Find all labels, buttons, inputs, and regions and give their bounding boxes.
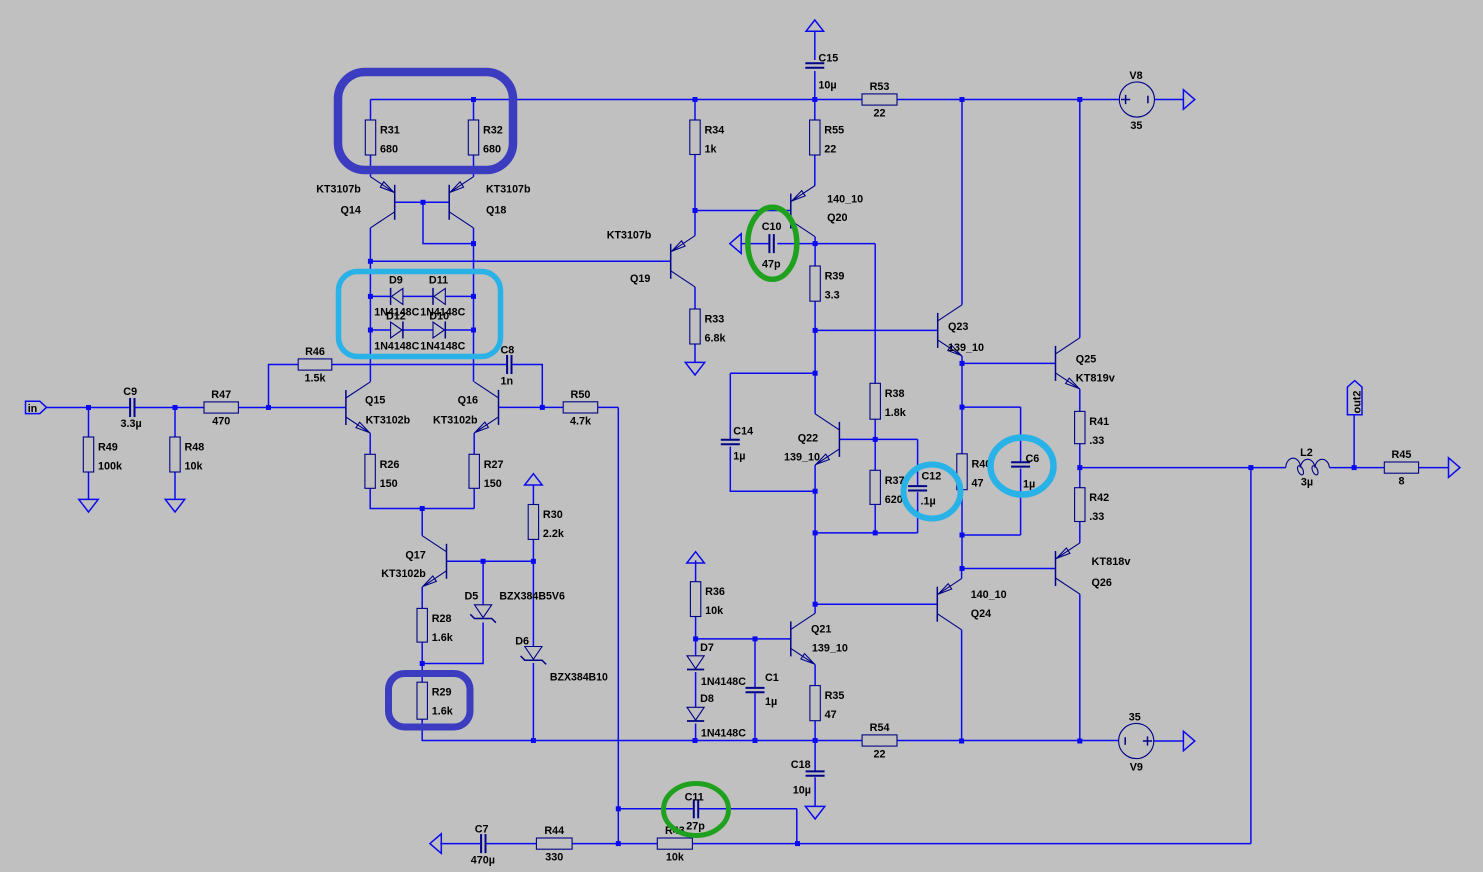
port out2: [1347, 381, 1362, 415]
wire Q18 collector down: [473, 228, 475, 382]
wire Q19 emitter: [694, 211, 696, 236]
resistor R46: [298, 359, 332, 370]
wire C9 to R47: [135, 407, 204, 409]
svg-text:22: 22: [873, 108, 885, 120]
wire R36 arrow: [695, 560, 697, 581]
junction in-R49: [86, 405, 91, 410]
svg-text:140_10: 140_10: [971, 589, 1007, 601]
capacitor C15: [805, 62, 824, 64]
junction diode row2 right: [471, 328, 476, 333]
svg-text:D9: D9: [389, 275, 403, 287]
wire top rail right: [897, 99, 1119, 101]
power flag C10: [730, 234, 741, 254]
resistor R37: [870, 470, 880, 504]
wire C12 bottom: [917, 492, 919, 533]
resistor R55: [810, 120, 820, 155]
svg-text:C12: C12: [922, 471, 942, 483]
svg-text:47: 47: [825, 709, 837, 721]
wire Q21 collector: [814, 604, 816, 613]
wire Q24 emitter up: [961, 569, 963, 579]
transistor Q26: [1055, 551, 1057, 586]
wire R30 bottom: [532, 539, 534, 561]
wire Q25 emitter to R41: [1079, 389, 1081, 411]
wire L2 to R45: [1329, 467, 1384, 469]
svg-text:R54: R54: [870, 722, 890, 734]
svg-text:D6: D6: [515, 636, 529, 648]
junction Q17 base-D5: [481, 559, 486, 564]
highlight box R29: [389, 674, 471, 728]
resistor R34: [690, 120, 700, 155]
diode D10: [433, 322, 444, 338]
wire Q19 base: [370, 260, 670, 262]
svg-text:139_10: 139_10: [948, 342, 984, 354]
power flag R45: [1449, 458, 1460, 478]
svg-text:Q25: Q25: [1076, 354, 1096, 366]
wire R42 top: [1079, 468, 1081, 488]
svg-text:470: 470: [212, 416, 230, 428]
svg-text:D5: D5: [465, 591, 479, 603]
wire R39 bottom: [814, 301, 816, 330]
svg-text:Q24: Q24: [971, 608, 991, 620]
wire Q19 collector to R33: [694, 287, 696, 309]
svg-text:330: 330: [545, 852, 563, 864]
svg-text:1N4148C: 1N4148C: [420, 341, 465, 353]
ground C18: [805, 806, 824, 819]
svg-text:35: 35: [1130, 120, 1142, 132]
resistor R48: [170, 437, 180, 472]
junction rail-D8: [693, 738, 698, 743]
highlight circle C6: [991, 438, 1054, 495]
svg-text:22: 22: [874, 749, 886, 761]
junction C14 top: [813, 371, 818, 376]
svg-text:D11: D11: [429, 275, 448, 287]
diode D7: [687, 656, 704, 669]
wire R27 bottom: [473, 488, 475, 508]
wire R40 bottom: [961, 490, 963, 535]
svg-text:Q19: Q19: [630, 273, 650, 285]
wire R30 top arrow: [532, 485, 534, 505]
svg-text:1.6k: 1.6k: [432, 706, 454, 718]
wire junction up to R46: [269, 365, 299, 408]
svg-text:R28: R28: [432, 613, 452, 625]
svg-text:4.7k: 4.7k: [570, 415, 592, 427]
junction R26-R27 tail: [420, 506, 425, 511]
junction R39-vas: [813, 328, 818, 333]
svg-text:2.2k: 2.2k: [543, 528, 565, 540]
svg-text:R42: R42: [1089, 492, 1109, 504]
svg-text:R26: R26: [380, 459, 400, 471]
svg-text:Q18: Q18: [486, 205, 506, 217]
transistor Q16: [498, 390, 500, 425]
svg-text:KT3102b: KT3102b: [433, 415, 478, 427]
power flag R30: [525, 474, 543, 485]
svg-text:Q20: Q20: [827, 212, 847, 224]
svg-text:1n: 1n: [501, 376, 514, 388]
diode D6: [525, 647, 542, 660]
svg-text:R27: R27: [484, 459, 504, 471]
junction R37 bottom: [873, 530, 878, 535]
wire R40-Q24 node: [961, 535, 963, 569]
wire diode row1: [370, 295, 473, 297]
resistor R44: [536, 838, 572, 849]
resistor R47: [204, 402, 238, 413]
svg-text:.1µ: .1µ: [921, 496, 936, 508]
wire Q23 collector up: [961, 100, 963, 305]
junction Q21-Q24 base: [813, 602, 818, 607]
svg-text:V9: V9: [1130, 762, 1143, 774]
diode D5: [475, 605, 492, 618]
power flag R36: [687, 552, 705, 563]
svg-text:150: 150: [484, 478, 502, 490]
transistor Q18: [448, 185, 450, 220]
resistor R53: [862, 94, 897, 105]
svg-text:Q26: Q26: [1092, 577, 1112, 589]
wire R32 bottom: [473, 155, 475, 177]
svg-text:C7: C7: [475, 824, 489, 836]
junction R43-C11: [795, 841, 800, 846]
svg-text:R30: R30: [543, 509, 563, 521]
svg-text:C9: C9: [123, 386, 137, 398]
svg-text:1N4148C: 1N4148C: [374, 341, 419, 353]
diode D12: [391, 322, 402, 338]
capacitor C14: [721, 439, 740, 441]
wire R43 to corner: [692, 843, 1251, 845]
svg-text:D8: D8: [700, 693, 714, 705]
wire R34 to junction: [694, 155, 696, 211]
transistor Q15: [345, 390, 347, 425]
junction output-R41-R42: [1077, 465, 1082, 470]
svg-text:680: 680: [483, 144, 501, 156]
diode D9: [392, 288, 403, 304]
svg-text:R33: R33: [705, 314, 725, 326]
svg-text:R49: R49: [98, 442, 118, 454]
highlight box diodes: [339, 272, 501, 357]
power flag V9: [1183, 731, 1194, 751]
wire R38-C12 link: [875, 439, 917, 485]
junction R34-Q19-Q20: [693, 208, 698, 213]
svg-text:V8: V8: [1129, 70, 1142, 82]
wire Q14 collector down: [369, 228, 371, 382]
svg-text:1.8k: 1.8k: [885, 407, 907, 419]
wire D7-D8: [695, 672, 697, 707]
voltage source V9: [1119, 723, 1154, 758]
resistor R33: [690, 309, 700, 344]
wire R49 bottom: [88, 472, 90, 500]
wire D5 bottom: [422, 623, 483, 664]
wire R46 to C8: [332, 364, 506, 366]
power flag V8: [1183, 90, 1194, 110]
wire Q22 collector: [814, 373, 816, 414]
wire C11 branch right: [698, 809, 797, 844]
resistor R29: [417, 682, 427, 719]
svg-text:D7: D7: [700, 642, 714, 654]
diode D8: [687, 707, 704, 720]
junction C10-R39: [813, 241, 818, 246]
wire V9 to flag: [1154, 740, 1184, 742]
wire in to C9: [47, 407, 130, 409]
svg-text:BZX384B5V6: BZX384B5V6: [499, 591, 565, 603]
junction rail-C15-R55: [812, 97, 817, 102]
svg-text:10µ: 10µ: [793, 785, 811, 797]
junction R30-D6: [531, 559, 536, 564]
svg-text:R39: R39: [825, 271, 845, 283]
wire C10 flag: [741, 243, 768, 245]
svg-text:C15: C15: [818, 53, 838, 65]
junction R28-R29: [420, 661, 425, 666]
svg-text:D10: D10: [429, 311, 449, 323]
wire R38 column top: [874, 244, 876, 384]
svg-text:C1: C1: [765, 672, 779, 684]
svg-text:R29: R29: [432, 687, 452, 699]
wire C7 flag: [440, 843, 480, 845]
transistor Q14: [394, 185, 396, 220]
transistor Q25: [1055, 346, 1057, 381]
svg-text:35: 35: [1129, 712, 1141, 724]
highlight box R31 R32: [338, 72, 513, 170]
wire out2 stem: [1353, 415, 1355, 468]
svg-text:R45: R45: [1392, 449, 1412, 461]
svg-text:KT3102b: KT3102b: [381, 568, 426, 580]
svg-text:Q15: Q15: [365, 395, 385, 407]
wire C11 branch left: [618, 808, 693, 810]
junction R40 bottom: [960, 533, 965, 538]
junction diode row1 left: [368, 294, 373, 299]
wire Q24 base: [815, 603, 937, 605]
resistor R54: [862, 735, 897, 746]
svg-text:KT3102b: KT3102b: [366, 415, 411, 427]
svg-text:10µ: 10µ: [818, 80, 836, 92]
wire V8 to flag: [1155, 99, 1184, 101]
resistor R30: [528, 505, 538, 540]
wire Q21 emitter to R35: [814, 665, 816, 686]
wire D5 top: [482, 561, 484, 605]
junction rail-Q24: [959, 739, 964, 744]
svg-text:1µ: 1µ: [733, 451, 745, 463]
wire C1 top: [754, 639, 756, 687]
wire R31 bottom: [370, 155, 372, 177]
wire R36 bottom: [695, 617, 697, 639]
svg-text:1µ: 1µ: [1023, 479, 1035, 491]
wire R31 top: [370, 100, 372, 121]
svg-text:Q22: Q22: [798, 433, 818, 445]
capacitor C7: [480, 834, 482, 853]
transistor Q17: [446, 544, 448, 579]
wire D6 bottom: [532, 663, 534, 741]
wire Q22 base: [839, 438, 875, 440]
svg-text:47: 47: [972, 477, 984, 489]
wire C18 bottom: [814, 777, 816, 806]
svg-text:R53: R53: [870, 81, 890, 93]
wire top rail left: [371, 99, 863, 101]
wire vas node: [815, 329, 938, 331]
svg-text:.33: .33: [1089, 511, 1104, 523]
wire bottom rail left: [533, 740, 862, 742]
svg-text:1.6k: 1.6k: [432, 632, 454, 644]
wire Q22 emitter down: [814, 465, 816, 604]
svg-text:out2: out2: [1351, 391, 1363, 414]
wire Q17 emitter to R28: [421, 587, 423, 608]
wire R38 bottom: [874, 419, 876, 439]
junction C14 bottom: [813, 489, 818, 494]
svg-text:R34: R34: [705, 125, 725, 137]
junction rail-D6: [531, 738, 536, 743]
junction Q16 base node: [540, 405, 545, 410]
svg-text:R44: R44: [544, 825, 564, 837]
junction rail-Q23: [960, 97, 965, 102]
ground R48: [165, 499, 184, 512]
wire C15 bottom: [814, 71, 816, 100]
junction rail-R35-C18: [813, 738, 818, 743]
wire R50 to feedback: [598, 406, 619, 408]
svg-text:1N4148C: 1N4148C: [701, 728, 746, 740]
diode D11: [434, 288, 445, 304]
svg-text:R47: R47: [211, 389, 231, 401]
wire Q16 node to R50: [542, 406, 563, 408]
ground R49: [79, 499, 98, 512]
resistor R45: [1384, 462, 1418, 473]
wire C10 node to R38 col: [815, 243, 875, 245]
wire R47 to Q15 base: [238, 407, 346, 409]
wire R39 top: [814, 244, 816, 266]
wire bottom of C12 row: [815, 532, 918, 534]
wire Q24-Q26 base: [962, 568, 1056, 570]
svg-text:Q16: Q16: [458, 395, 478, 407]
wire R35 bottom: [814, 721, 816, 741]
port in: [26, 401, 47, 413]
transistor Q23: [937, 313, 939, 348]
svg-text:150: 150: [380, 478, 398, 490]
wire R32 top: [473, 100, 475, 121]
junction C9-R48: [173, 405, 178, 410]
wire Q17 base: [447, 560, 534, 562]
svg-text:C6: C6: [1026, 453, 1040, 465]
wire C6 top link: [962, 407, 1021, 461]
svg-text:D12: D12: [386, 311, 406, 323]
svg-text:R35: R35: [825, 690, 845, 702]
wire Q17 collector: [421, 509, 423, 536]
wire C14 bottom: [730, 447, 815, 492]
svg-text:R38: R38: [885, 388, 905, 400]
svg-text:C10: C10: [762, 221, 782, 233]
wire R37 bottom: [874, 504, 876, 533]
wire Q26 collector down: [1079, 594, 1081, 741]
junction output drop: [1248, 465, 1253, 470]
svg-text:22: 22: [824, 144, 836, 156]
capacitor C18: [806, 770, 825, 772]
svg-text:8: 8: [1398, 476, 1404, 488]
svg-text:KT819v: KT819v: [1076, 373, 1115, 385]
junction R40 top: [960, 405, 965, 410]
wire C10 to R39: [777, 243, 815, 245]
highlight circle C12: [904, 465, 961, 519]
svg-text:6.8k: 6.8k: [705, 333, 727, 345]
svg-text:R48: R48: [185, 442, 205, 454]
wire C15 top: [814, 31, 816, 60]
wire base R34-Q20: [695, 210, 791, 212]
wire emitter node down: [961, 363, 963, 407]
junction out2 node: [1352, 465, 1357, 470]
wire R44 to R43: [572, 843, 657, 845]
junction diode row2 left: [368, 328, 373, 333]
resistor R27: [469, 454, 479, 488]
junction Q23-Q25 base: [960, 361, 965, 366]
junction rail-Q26: [1077, 739, 1082, 744]
wire Q16 emitter: [473, 433, 475, 454]
junction R36-D7-Q21: [693, 636, 698, 641]
svg-text:R32: R32: [483, 125, 503, 137]
svg-text:10k: 10k: [185, 461, 204, 473]
power flag C15: [806, 20, 824, 31]
svg-text:47p: 47p: [762, 259, 781, 271]
junction rail-R32: [471, 97, 476, 102]
svg-text:KT3107b: KT3107b: [316, 184, 361, 196]
svg-text:C18: C18: [791, 759, 811, 771]
svg-text:140_10: 140_10: [827, 193, 863, 205]
junction rail-Q25: [1077, 97, 1082, 102]
wire R55 to Q20: [814, 155, 816, 186]
svg-text:3µ: 3µ: [1301, 477, 1313, 489]
wire Q25 collector up: [1079, 100, 1081, 338]
resistor R35: [810, 686, 820, 721]
wire R33 to gnd: [694, 344, 696, 363]
wire R34 top: [694, 100, 696, 121]
junction Q24-Q26 base: [960, 566, 965, 571]
resistor R42: [1075, 488, 1085, 522]
wire R48 bottom: [174, 472, 176, 500]
wire R29 bottom to rail: [422, 719, 533, 740]
wire R40 top: [961, 407, 963, 454]
transistor Q24: [936, 587, 938, 622]
capacitor C6: [1011, 461, 1030, 463]
resistor R26: [365, 454, 375, 488]
highlight circle C11: [664, 784, 729, 836]
svg-text:3.3µ: 3.3µ: [121, 418, 142, 430]
wire C1 bottom: [754, 693, 756, 741]
svg-text:KT3107b: KT3107b: [607, 230, 652, 242]
svg-text:R55: R55: [824, 125, 844, 137]
svg-text:1N4148C: 1N4148C: [701, 676, 746, 688]
svg-text:Q14: Q14: [341, 205, 361, 217]
wire R41 bottom: [1079, 444, 1081, 468]
svg-text:R50: R50: [571, 389, 591, 401]
junction C1 top: [753, 636, 758, 641]
svg-text:680: 680: [380, 144, 398, 156]
svg-text:100k: 100k: [98, 461, 123, 473]
resistor R39: [810, 266, 820, 301]
capacitor C12: [908, 485, 927, 487]
resistor R50: [563, 402, 598, 413]
capacitor C1: [746, 687, 765, 689]
svg-text:27p: 27p: [686, 821, 705, 833]
junction feedback-R43: [616, 841, 621, 846]
junction C11 tap: [616, 806, 621, 811]
transistor Q19: [670, 244, 672, 279]
wire Q20 collector: [814, 237, 816, 244]
resistor R38: [870, 383, 880, 419]
wire D6 top: [532, 561, 534, 646]
wire Q23 emitter: [961, 356, 963, 363]
svg-text:1µ: 1µ: [765, 696, 777, 708]
wire R37 top: [874, 439, 876, 470]
junction R38-Q22: [873, 437, 878, 442]
wire Q14-Q18 base: [395, 201, 450, 203]
wire Q23-Q25 base: [962, 362, 1056, 364]
transistor Q21: [790, 621, 792, 656]
wire R28 to R29: [421, 642, 423, 682]
svg-text:C8: C8: [501, 345, 515, 357]
wire D8 bottom: [695, 724, 697, 741]
wire C18 top: [814, 741, 816, 771]
